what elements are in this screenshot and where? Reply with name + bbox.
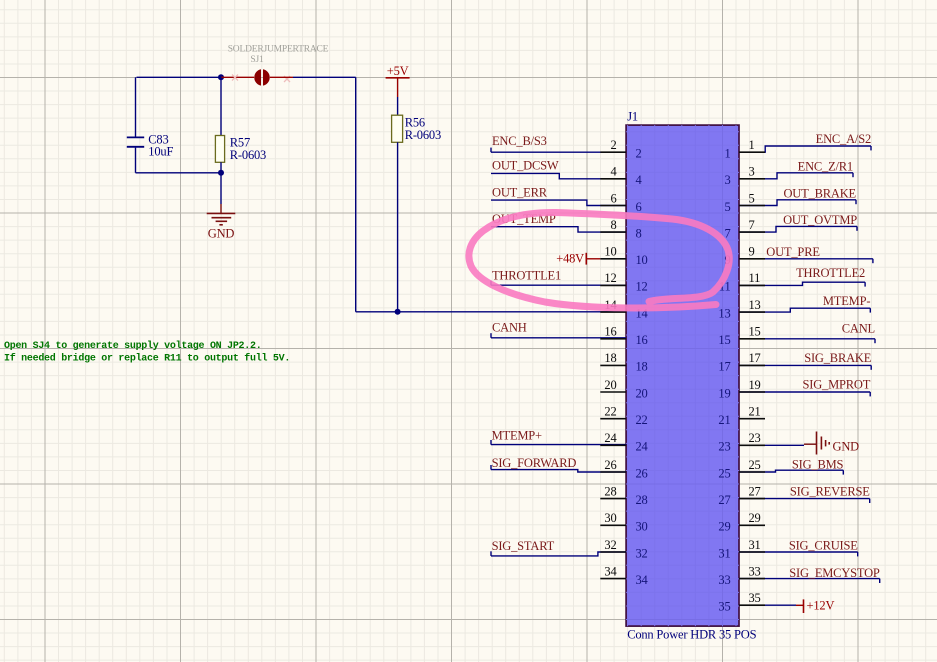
pin 31 (right, stub + numbers)	[718, 538, 765, 561]
svg-text:R-0603: R-0603	[230, 148, 266, 162]
svg-text:4: 4	[636, 173, 643, 187]
svg-text:21: 21	[749, 405, 761, 419]
svg-text:17: 17	[749, 351, 761, 365]
svg-text:8: 8	[636, 226, 642, 240]
svg-text:7: 7	[749, 218, 755, 232]
svg-text:11: 11	[749, 271, 761, 285]
pin 28 (left, stub + numbers)	[600, 484, 647, 507]
pin 3 (right, stub + numbers)	[724, 165, 765, 188]
pin 7 (right, stub + numbers)	[724, 218, 765, 241]
svg-text:23: 23	[749, 431, 761, 445]
svg-text:6: 6	[610, 191, 616, 205]
pin 16 (left, stub + numbers)	[600, 325, 647, 348]
pin 23 (right, stub + numbers)	[718, 431, 765, 454]
pin 4 (left, stub + numbers)	[600, 165, 642, 188]
svg-text:THROTTLE2: THROTTLE2	[796, 266, 865, 280]
svg-text:SIG_BRAKE: SIG_BRAKE	[804, 351, 872, 365]
power GND on pin 23	[739, 432, 859, 455]
svg-text:32: 32	[636, 546, 648, 560]
svg-text:SIG_EMCYSTOP: SIG_EMCYSTOP	[789, 566, 880, 580]
svg-text:5: 5	[749, 191, 755, 205]
svg-text:CANL: CANL	[842, 321, 875, 335]
svg-text:29: 29	[718, 520, 730, 534]
wire from SJ1 to vertical drop	[293, 76, 356, 78]
svg-text:Open SJ4 to generate supply vo: Open SJ4 to generate supply voltage ON J…	[4, 340, 261, 352]
pin 9 (right, stub + numbers)	[724, 245, 765, 268]
node junction of R56 branch on pin-14 rail	[395, 309, 401, 315]
net label MTEMP+ + wire to pin 24	[491, 428, 626, 444]
net label CANH + wire to pin 16	[491, 321, 626, 338]
pin 10 (left, stub + numbers)	[600, 245, 647, 268]
svg-text:10: 10	[636, 253, 648, 267]
pin 29 (right, stub + numbers)	[718, 511, 765, 534]
pin 13 (right, stub + numbers)	[718, 298, 765, 321]
svg-text:OUT_PRE: OUT_PRE	[766, 245, 820, 259]
svg-text:13: 13	[749, 298, 761, 312]
svg-text:12: 12	[636, 280, 648, 294]
pin 1 (right, stub + numbers)	[724, 138, 765, 161]
svg-text:7: 7	[724, 226, 730, 240]
svg-text:35: 35	[749, 591, 761, 605]
svg-text:2: 2	[610, 138, 616, 152]
svg-text:3: 3	[724, 173, 730, 187]
label SOLDERJUMPERTRACE	[228, 45, 329, 55]
svg-text:1: 1	[749, 138, 755, 152]
svg-text:33: 33	[718, 573, 730, 587]
pin 15 (right, stub + numbers)	[718, 325, 765, 348]
svg-text:19: 19	[749, 378, 761, 392]
svg-text:SIG_FORWARD: SIG_FORWARD	[492, 456, 577, 470]
resistor R57	[215, 77, 266, 173]
pin 32 (left, stub + numbers)	[600, 538, 647, 561]
svg-text:OUT_DCSW: OUT_DCSW	[492, 159, 559, 173]
power +5V	[386, 64, 410, 97]
wire vertical drop to pin-14 rail	[355, 77, 357, 311]
svg-text:OUT_BRAKE: OUT_BRAKE	[783, 187, 856, 201]
svg-text:MTEMP-: MTEMP-	[823, 294, 870, 308]
pin 17 (right, stub + numbers)	[718, 351, 765, 374]
pin 20 (left, stub + numbers)	[600, 378, 647, 401]
net label SIG_START + wire to pin 32	[491, 539, 626, 556]
net label SIG_BRAKE + wire to pin 17	[739, 351, 872, 370]
pin 24 (left, stub + numbers)	[600, 431, 648, 454]
label Conn Power HDR 35 POS	[627, 627, 756, 641]
svg-text:10uF: 10uF	[148, 145, 173, 159]
svg-text:16: 16	[604, 325, 616, 339]
svg-text:20: 20	[636, 386, 648, 400]
svg-text:33: 33	[749, 564, 761, 578]
svg-text:J1: J1	[627, 110, 638, 124]
wire C83 bottom to junction	[136, 172, 222, 174]
pin 34 (left, stub + numbers)	[600, 564, 648, 587]
svg-text:22: 22	[636, 413, 648, 427]
svg-text:5: 5	[724, 200, 730, 214]
svg-text:R-0603: R-0603	[405, 128, 441, 142]
net label SIG_MPROT + wire to pin 19	[739, 377, 871, 396]
pin 6 (left, stub + numbers)	[600, 191, 641, 214]
svg-text:31: 31	[749, 538, 761, 552]
no-ERC marker right of SJ1	[284, 76, 290, 82]
svg-text:SIG_START: SIG_START	[492, 539, 555, 553]
svg-text:24: 24	[636, 440, 649, 454]
svg-text:Conn Power HDR 35 POS: Conn Power HDR 35 POS	[627, 627, 756, 641]
svg-text:ENC_B/S3: ENC_B/S3	[492, 134, 547, 148]
svg-text:27: 27	[749, 484, 761, 498]
wire SJ1 left lead	[221, 76, 254, 78]
wire pin-14 rail to connector	[356, 311, 627, 313]
pin 5 (right, stub + numbers)	[724, 191, 765, 214]
svg-text:20: 20	[604, 378, 616, 392]
pin 22 (left, stub + numbers)	[600, 405, 647, 428]
svg-text:31: 31	[718, 546, 730, 560]
svg-text:21: 21	[718, 413, 730, 427]
svg-text:SOLDERJUMPERTRACE: SOLDERJUMPERTRACE	[228, 45, 329, 55]
svg-text:+12V: +12V	[807, 599, 835, 613]
connector J1 body	[626, 125, 739, 626]
svg-text:13: 13	[718, 306, 730, 320]
pin 26 (left, stub + numbers)	[600, 458, 647, 481]
pin 25 (right, stub + numbers)	[718, 458, 765, 481]
net label THROTTLE1 + wire to pin 12	[491, 269, 626, 286]
svg-text:+5V: +5V	[387, 64, 409, 78]
svg-text:18: 18	[636, 360, 648, 374]
svg-text:If needed bridge or replace R1: If needed bridge or replace R11 to outpu…	[4, 352, 290, 364]
svg-text:10: 10	[604, 245, 616, 259]
net label OUT_PRE + wire to pin 9	[739, 245, 873, 263]
resistor R56	[392, 97, 441, 312]
net label OUT_TEMP + wire to pin 8	[491, 212, 626, 232]
svg-text:29: 29	[749, 511, 761, 525]
svg-text:1: 1	[724, 147, 730, 161]
pin 2 (left, stub + numbers)	[600, 138, 641, 161]
node bottom junction at R57/GND	[218, 170, 224, 176]
svg-text:2: 2	[636, 147, 642, 161]
net label OUT_ERR + wire to pin 6	[491, 185, 626, 205]
power +12V on pin 35	[739, 599, 834, 613]
net label OUT_OVTMP + wire to pin 7	[739, 213, 857, 232]
svg-text:15: 15	[718, 333, 730, 347]
svg-text:32: 32	[604, 538, 616, 552]
svg-text:+48V: +48V	[556, 252, 584, 266]
pin 19 (right, stub + numbers)	[718, 378, 765, 401]
net label SIG_FORWARD + wire to pin 26	[491, 456, 626, 472]
pin 30 (left, stub + numbers)	[600, 511, 647, 534]
svg-text:26: 26	[604, 458, 616, 472]
svg-text:SIG_MPROT: SIG_MPROT	[803, 377, 871, 391]
svg-text:22: 22	[604, 405, 616, 419]
svg-text:3: 3	[749, 165, 755, 179]
pin 35 (right, stub + numbers)	[718, 591, 765, 614]
svg-text:6: 6	[636, 200, 642, 214]
pin 12 (left, stub + numbers)	[600, 271, 647, 294]
pin 8 (left, stub + numbers)	[600, 218, 641, 241]
svg-text:34: 34	[604, 564, 617, 578]
node top junction at R57 branch	[218, 74, 224, 80]
svg-text:15: 15	[749, 325, 761, 339]
svg-text:28: 28	[604, 484, 616, 498]
net label THROTTLE2 + wire to pin 11	[739, 266, 865, 286]
svg-text:28: 28	[636, 493, 648, 507]
svg-text:24: 24	[604, 431, 617, 445]
svg-text:SIG_CRUISE: SIG_CRUISE	[789, 539, 858, 553]
svg-text:GND: GND	[833, 439, 860, 453]
net label ENC_A/S2 + wire to pin 1	[739, 132, 871, 152]
svg-text:34: 34	[636, 573, 649, 587]
svg-text:SIG_REVERSE: SIG_REVERSE	[790, 485, 870, 499]
svg-text:12: 12	[604, 271, 616, 285]
svg-text:GND: GND	[208, 227, 235, 241]
ground GND (left)	[207, 173, 236, 241]
freehand pink annotation ellipse	[469, 212, 729, 308]
net label SIG_BMS + wire to pin 25	[739, 458, 844, 475]
svg-text:9: 9	[749, 245, 755, 259]
svg-text:35: 35	[718, 600, 730, 614]
svg-text:23: 23	[718, 440, 730, 454]
svg-text:OUT_OVTMP: OUT_OVTMP	[783, 213, 857, 227]
svg-text:CANH: CANH	[492, 321, 527, 335]
wire top rail from C83 to junction	[137, 76, 222, 78]
pin 14 (left, stub + numbers)	[600, 298, 648, 321]
note text line 1	[4, 340, 261, 352]
pin 11 (right, stub + numbers)	[719, 271, 765, 294]
net label OUT_DCSW + wire to pin 4	[491, 159, 626, 179]
net label SIG_CRUISE + wire to pin 31	[739, 539, 858, 557]
pin 21 (right, stub + numbers)	[718, 405, 765, 428]
svg-text:OUT_ERR: OUT_ERR	[492, 185, 548, 199]
svg-text:8: 8	[610, 218, 616, 232]
capacitor C83	[127, 77, 174, 173]
svg-text:25: 25	[749, 458, 761, 472]
svg-text:26: 26	[636, 466, 648, 480]
svg-text:30: 30	[636, 520, 648, 534]
net label OUT_BRAKE + wire to pin 5	[739, 187, 857, 206]
net label SIG_REVERSE + wire to pin 27	[739, 485, 870, 503]
svg-text:MTEMP+: MTEMP+	[492, 428, 542, 442]
pin 33 (right, stub + numbers)	[718, 564, 765, 587]
svg-text:19: 19	[718, 386, 730, 400]
pin 27 (right, stub + numbers)	[718, 484, 765, 507]
no-ERC marker left of SJ1	[232, 75, 238, 81]
svg-text:ENC_A/S2: ENC_A/S2	[816, 132, 871, 146]
svg-text:THROTTLE1: THROTTLE1	[492, 269, 561, 283]
net label MTEMP- + wire to pin 13	[739, 294, 870, 313]
svg-text:SIG_BMS: SIG_BMS	[792, 458, 844, 472]
svg-text:25: 25	[718, 466, 730, 480]
net label CANL + wire to pin 15	[739, 321, 875, 343]
net label ENC_B/S3 + wire to pin 2	[491, 134, 626, 152]
label SJ1	[250, 55, 264, 65]
svg-text:27: 27	[718, 493, 730, 507]
svg-text:30: 30	[604, 511, 616, 525]
svg-text:17: 17	[718, 360, 730, 374]
svg-text:4: 4	[610, 165, 617, 179]
svg-text:16: 16	[636, 333, 648, 347]
net label SIG_EMCYSTOP + wire to pin 33	[739, 566, 880, 583]
pin 18 (left, stub + numbers)	[600, 351, 647, 374]
label J1 designator	[627, 110, 638, 124]
wire SJ1 right lead	[270, 76, 293, 78]
power +48V on pin 10	[556, 252, 600, 266]
svg-text:18: 18	[604, 351, 616, 365]
svg-text:SJ1: SJ1	[250, 55, 264, 65]
solder jumper SJ1	[254, 69, 269, 85]
note text line 2	[4, 352, 290, 364]
svg-text:ENC_Z/R1: ENC_Z/R1	[798, 159, 853, 173]
net label ENC_Z/R1 + wire to pin 3	[739, 159, 853, 179]
